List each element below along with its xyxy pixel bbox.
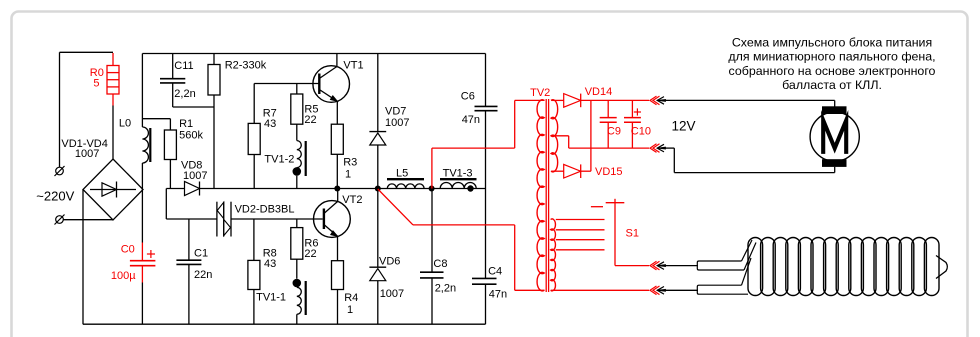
label R4 bbox=[344, 292, 358, 316]
wire mid rail bbox=[200, 188, 486, 190]
heater lead bar 2 bbox=[697, 258, 751, 294]
svg-text:для миниатюрного паяльного фен: для миниатюрного паяльного фена, bbox=[728, 50, 935, 64]
label C1 bbox=[194, 248, 208, 260]
wire TV1-1 to bottom rail bbox=[296, 314, 298, 324]
wire motor plus bbox=[661, 100, 835, 107]
label C11 value bbox=[174, 88, 195, 100]
transformer TV2 secondary upper bbox=[551, 100, 558, 172]
label VD6 bbox=[379, 256, 400, 268]
resistor R6 bbox=[291, 219, 303, 279]
heater lead bar 1 bbox=[697, 240, 756, 270]
switch S1 bbox=[591, 199, 624, 266]
wire TV2 sec bottom lead bbox=[551, 170, 564, 172]
label TV1-2 bbox=[264, 154, 294, 166]
transistor VT1 bbox=[313, 66, 350, 103]
diac VD2 bbox=[217, 202, 231, 237]
wire left down to terminal 1 bbox=[59, 52, 61, 167]
resistor R3 bbox=[331, 124, 343, 188]
wire R0 to bridge bbox=[112, 94, 114, 159]
capacitor C4 bbox=[472, 278, 497, 324]
svg-text:47n: 47n bbox=[462, 114, 480, 126]
wire bridge plus down to C0 bbox=[141, 190, 143, 243]
terminal X1 ~220V bbox=[55, 166, 65, 176]
wire base rail left bbox=[166, 218, 217, 220]
diode VD7 bbox=[369, 132, 386, 145]
capacitor C6 bbox=[475, 54, 498, 279]
resistor R5 bbox=[291, 84, 303, 141]
label VT2 bbox=[342, 194, 362, 206]
winding TV1-3 dot bbox=[467, 185, 473, 191]
svg-text:43: 43 bbox=[264, 258, 276, 270]
wire VD7 to mid rail bbox=[377, 145, 379, 189]
svg-text:2,2n: 2,2n bbox=[435, 283, 456, 295]
svg-text:~220V: ~220V bbox=[36, 188, 74, 203]
wire 12V plus out bbox=[581, 99, 649, 101]
svg-text:C10: C10 bbox=[631, 125, 651, 137]
connector arrow 12V plus bbox=[650, 96, 666, 105]
wire C0 to bottom rail bbox=[141, 283, 143, 325]
bridge rectifier VD1-VD4 diamond bbox=[83, 159, 143, 220]
svg-text:560k: 560k bbox=[179, 129, 203, 141]
wire VT1 base rail bbox=[254, 83, 319, 85]
label C9 bbox=[607, 125, 621, 137]
wire TV2 tap 2 bbox=[556, 229, 605, 231]
svg-text:1007: 1007 bbox=[75, 148, 99, 160]
wire R1 branch bbox=[142, 118, 170, 120]
capacitor C0 polar bbox=[130, 243, 156, 283]
inductor L0 bbox=[142, 127, 150, 163]
svg-text:22: 22 bbox=[304, 114, 316, 126]
label C1 value bbox=[194, 269, 212, 281]
resistor R8 bbox=[248, 219, 260, 324]
winding TV1-2 dot bbox=[293, 167, 302, 176]
svg-text:22: 22 bbox=[304, 248, 316, 260]
capacitor C10 plus bbox=[634, 108, 641, 115]
svg-text:VD2-DB3BL: VD2-DB3BL bbox=[235, 204, 295, 216]
svg-text:VD7: VD7 bbox=[385, 106, 406, 118]
wire mid rail left end bbox=[166, 188, 184, 190]
svg-text:L5: L5 bbox=[396, 167, 408, 179]
wire left drop to base rail bbox=[165, 189, 167, 220]
wire node A to VD6 bbox=[377, 189, 379, 268]
label C0 bbox=[111, 243, 136, 282]
wire VT2 collector bbox=[337, 189, 339, 202]
transformer TV2 core bbox=[546, 99, 548, 292]
label R3 bbox=[343, 157, 357, 181]
wire TV2 tap 3 bbox=[556, 239, 605, 241]
resistor R7 bbox=[248, 84, 260, 189]
svg-text:TV1-3: TV1-3 bbox=[443, 167, 473, 179]
inductor L5 bbox=[387, 184, 424, 189]
svg-text:VT1: VT1 bbox=[343, 59, 363, 71]
wire terminal 2 to bridge bbox=[63, 219, 113, 221]
label VD14 bbox=[585, 86, 613, 98]
wire TV1-2 to mid rail bbox=[296, 176, 298, 189]
svg-text:12V: 12V bbox=[672, 119, 696, 134]
wire VT1 emitter to R3 bbox=[336, 101, 338, 124]
label VD15 bbox=[595, 166, 623, 178]
svg-text:100µ: 100µ bbox=[111, 270, 136, 282]
label L5 bbox=[387, 167, 424, 179]
svg-text:1007: 1007 bbox=[385, 117, 409, 129]
label VD6 value bbox=[380, 288, 404, 300]
label R0 bbox=[90, 67, 104, 89]
wire TV2 tap 4 bbox=[556, 249, 605, 251]
junction mid rail node A bbox=[375, 186, 381, 192]
transistor VT2 bbox=[314, 201, 351, 238]
label R8 bbox=[263, 247, 277, 270]
svg-text:22n: 22n bbox=[194, 269, 212, 281]
wire VD6 to bottom rail bbox=[377, 281, 379, 325]
svg-text:балласта от КЛЛ.: балласта от КЛЛ. bbox=[782, 78, 882, 92]
svg-text:C0: C0 bbox=[121, 243, 135, 255]
capacitor C11 bbox=[160, 54, 185, 108]
svg-text:Схема импульсного блока питани: Схема импульсного блока питания bbox=[732, 36, 932, 50]
winding TV1-1 bbox=[297, 281, 306, 315]
svg-text:R1: R1 bbox=[179, 118, 193, 130]
label R7 bbox=[263, 107, 277, 130]
wire bridge minus down bbox=[82, 190, 84, 325]
label C10 bbox=[631, 125, 651, 137]
wire bottom rail bbox=[83, 323, 486, 325]
diode VD15 bbox=[564, 164, 581, 178]
svg-text:L0: L0 bbox=[119, 118, 131, 130]
wire motor minus bbox=[661, 148, 835, 173]
svg-text:собранного на основе электронн: собранного на основе электронного bbox=[729, 64, 936, 78]
wire L0 to bridge plus bbox=[141, 163, 143, 190]
wire red node A diagonal bbox=[378, 189, 545, 290]
svg-text:S1: S1 bbox=[626, 228, 639, 240]
label R6 bbox=[304, 237, 318, 260]
wire TV2 center tap bbox=[551, 136, 649, 148]
wire left edge of block down to L0 bbox=[141, 54, 143, 128]
label VD7 bbox=[385, 106, 409, 130]
junction node B bbox=[429, 186, 435, 192]
wire heater lead 2 bbox=[661, 289, 698, 291]
svg-text:43: 43 bbox=[264, 118, 276, 130]
wire VT2 emitter to R4 bbox=[337, 236, 339, 260]
label C8 bbox=[433, 258, 456, 295]
svg-text:2,2n: 2,2n bbox=[174, 88, 195, 100]
svg-text:TV2: TV2 bbox=[530, 87, 550, 99]
capacitor C8 bbox=[420, 189, 444, 325]
svg-text:1007: 1007 bbox=[380, 288, 404, 300]
capacitor C1 bbox=[176, 219, 201, 324]
wire top-left rail bbox=[60, 51, 114, 53]
label TV1-3 bbox=[440, 167, 477, 179]
bridge internal diode bbox=[90, 182, 136, 198]
label VD8 bbox=[181, 159, 207, 182]
svg-text:47n: 47n bbox=[489, 289, 507, 301]
label VT1 bbox=[343, 59, 363, 71]
wire heater lead 1 bbox=[661, 265, 698, 267]
svg-text:C8: C8 bbox=[433, 258, 447, 270]
label TV1-1 bbox=[256, 292, 286, 304]
winding TV1-1 dot bbox=[293, 279, 302, 288]
winding TV1-3 bbox=[440, 183, 476, 189]
wire TV2 sec lower bottom lead bbox=[551, 289, 649, 291]
svg-text:1007: 1007 bbox=[183, 170, 207, 182]
label R1 bbox=[179, 118, 203, 141]
svg-text:TV1-1: TV1-1 bbox=[256, 292, 286, 304]
junction R3-VT2 bbox=[334, 186, 340, 192]
svg-text:VD14: VD14 bbox=[585, 86, 613, 98]
svg-text:R3: R3 bbox=[343, 157, 357, 169]
label ~220V bbox=[36, 188, 74, 203]
wire R0 top lead bbox=[112, 53, 114, 66]
terminal X2 ~220V bbox=[55, 215, 65, 225]
svg-text:R2-330k: R2-330k bbox=[225, 59, 267, 71]
wire TV2 tap 1 bbox=[556, 219, 605, 221]
label VD1-VD4 bbox=[61, 138, 107, 160]
wire VT1 collector bbox=[336, 54, 338, 67]
svg-text:C1: C1 bbox=[194, 248, 208, 260]
heater coil bbox=[748, 238, 939, 296]
wire C11 to R2 node bbox=[173, 106, 214, 108]
title text bbox=[728, 36, 935, 93]
transformer TV2 primary bbox=[537, 100, 544, 291]
svg-text:C9: C9 bbox=[607, 125, 621, 137]
connector arrow heater 2 bbox=[650, 286, 666, 295]
transformer TV2 secondary lower bbox=[551, 219, 556, 291]
svg-text:C4: C4 bbox=[488, 266, 502, 278]
motor M1 bbox=[810, 106, 859, 167]
svg-text:1: 1 bbox=[345, 169, 351, 181]
label R5 bbox=[304, 104, 318, 127]
resistor R0 bbox=[107, 66, 119, 95]
wire top rail left segment bbox=[142, 53, 485, 55]
svg-text:TV1-2: TV1-2 bbox=[264, 154, 294, 166]
label C0 plus bbox=[147, 250, 155, 258]
label C4 bbox=[488, 266, 507, 301]
label 12V bbox=[672, 119, 696, 134]
label VD2-DB3BL bbox=[235, 204, 295, 216]
label C6 bbox=[461, 91, 480, 127]
winding TV1-2 bbox=[297, 141, 306, 176]
svg-text:R4: R4 bbox=[344, 292, 358, 304]
wire VD7 column top bbox=[377, 54, 379, 132]
svg-text:C6: C6 bbox=[461, 91, 475, 103]
svg-text:VD6: VD6 bbox=[379, 256, 400, 268]
wire red node B up bbox=[432, 100, 545, 188]
heater tip bbox=[936, 256, 947, 279]
svg-text:VD15: VD15 bbox=[595, 166, 623, 178]
connector arrow heater 1 bbox=[650, 261, 666, 270]
label S1 bbox=[626, 228, 639, 240]
svg-text:C11: C11 bbox=[174, 60, 193, 72]
svg-text:1: 1 bbox=[347, 304, 353, 316]
capacitor C10 bbox=[624, 100, 641, 148]
svg-text:5: 5 bbox=[93, 77, 99, 89]
wire base rail right bbox=[231, 218, 323, 220]
wire TV2 sec top lead bbox=[551, 99, 564, 101]
label C11 bbox=[174, 60, 193, 72]
resistor R2 bbox=[208, 54, 220, 189]
connector arrow 12V minus bbox=[650, 144, 666, 153]
wire S1 out bbox=[615, 265, 649, 267]
svg-text:VT2: VT2 bbox=[342, 194, 362, 206]
capacitor C9 bbox=[600, 100, 617, 148]
label TV2 bbox=[530, 87, 550, 99]
wire VD15 cathode up bbox=[581, 100, 591, 171]
resistor R1 bbox=[164, 119, 176, 189]
diode VD8 bbox=[185, 182, 200, 196]
diode VD14 bbox=[564, 94, 581, 108]
label L0 bbox=[119, 118, 131, 130]
diode VD6 bbox=[369, 267, 386, 281]
label R2-330k bbox=[225, 59, 267, 71]
resistor R4 bbox=[332, 261, 344, 325]
